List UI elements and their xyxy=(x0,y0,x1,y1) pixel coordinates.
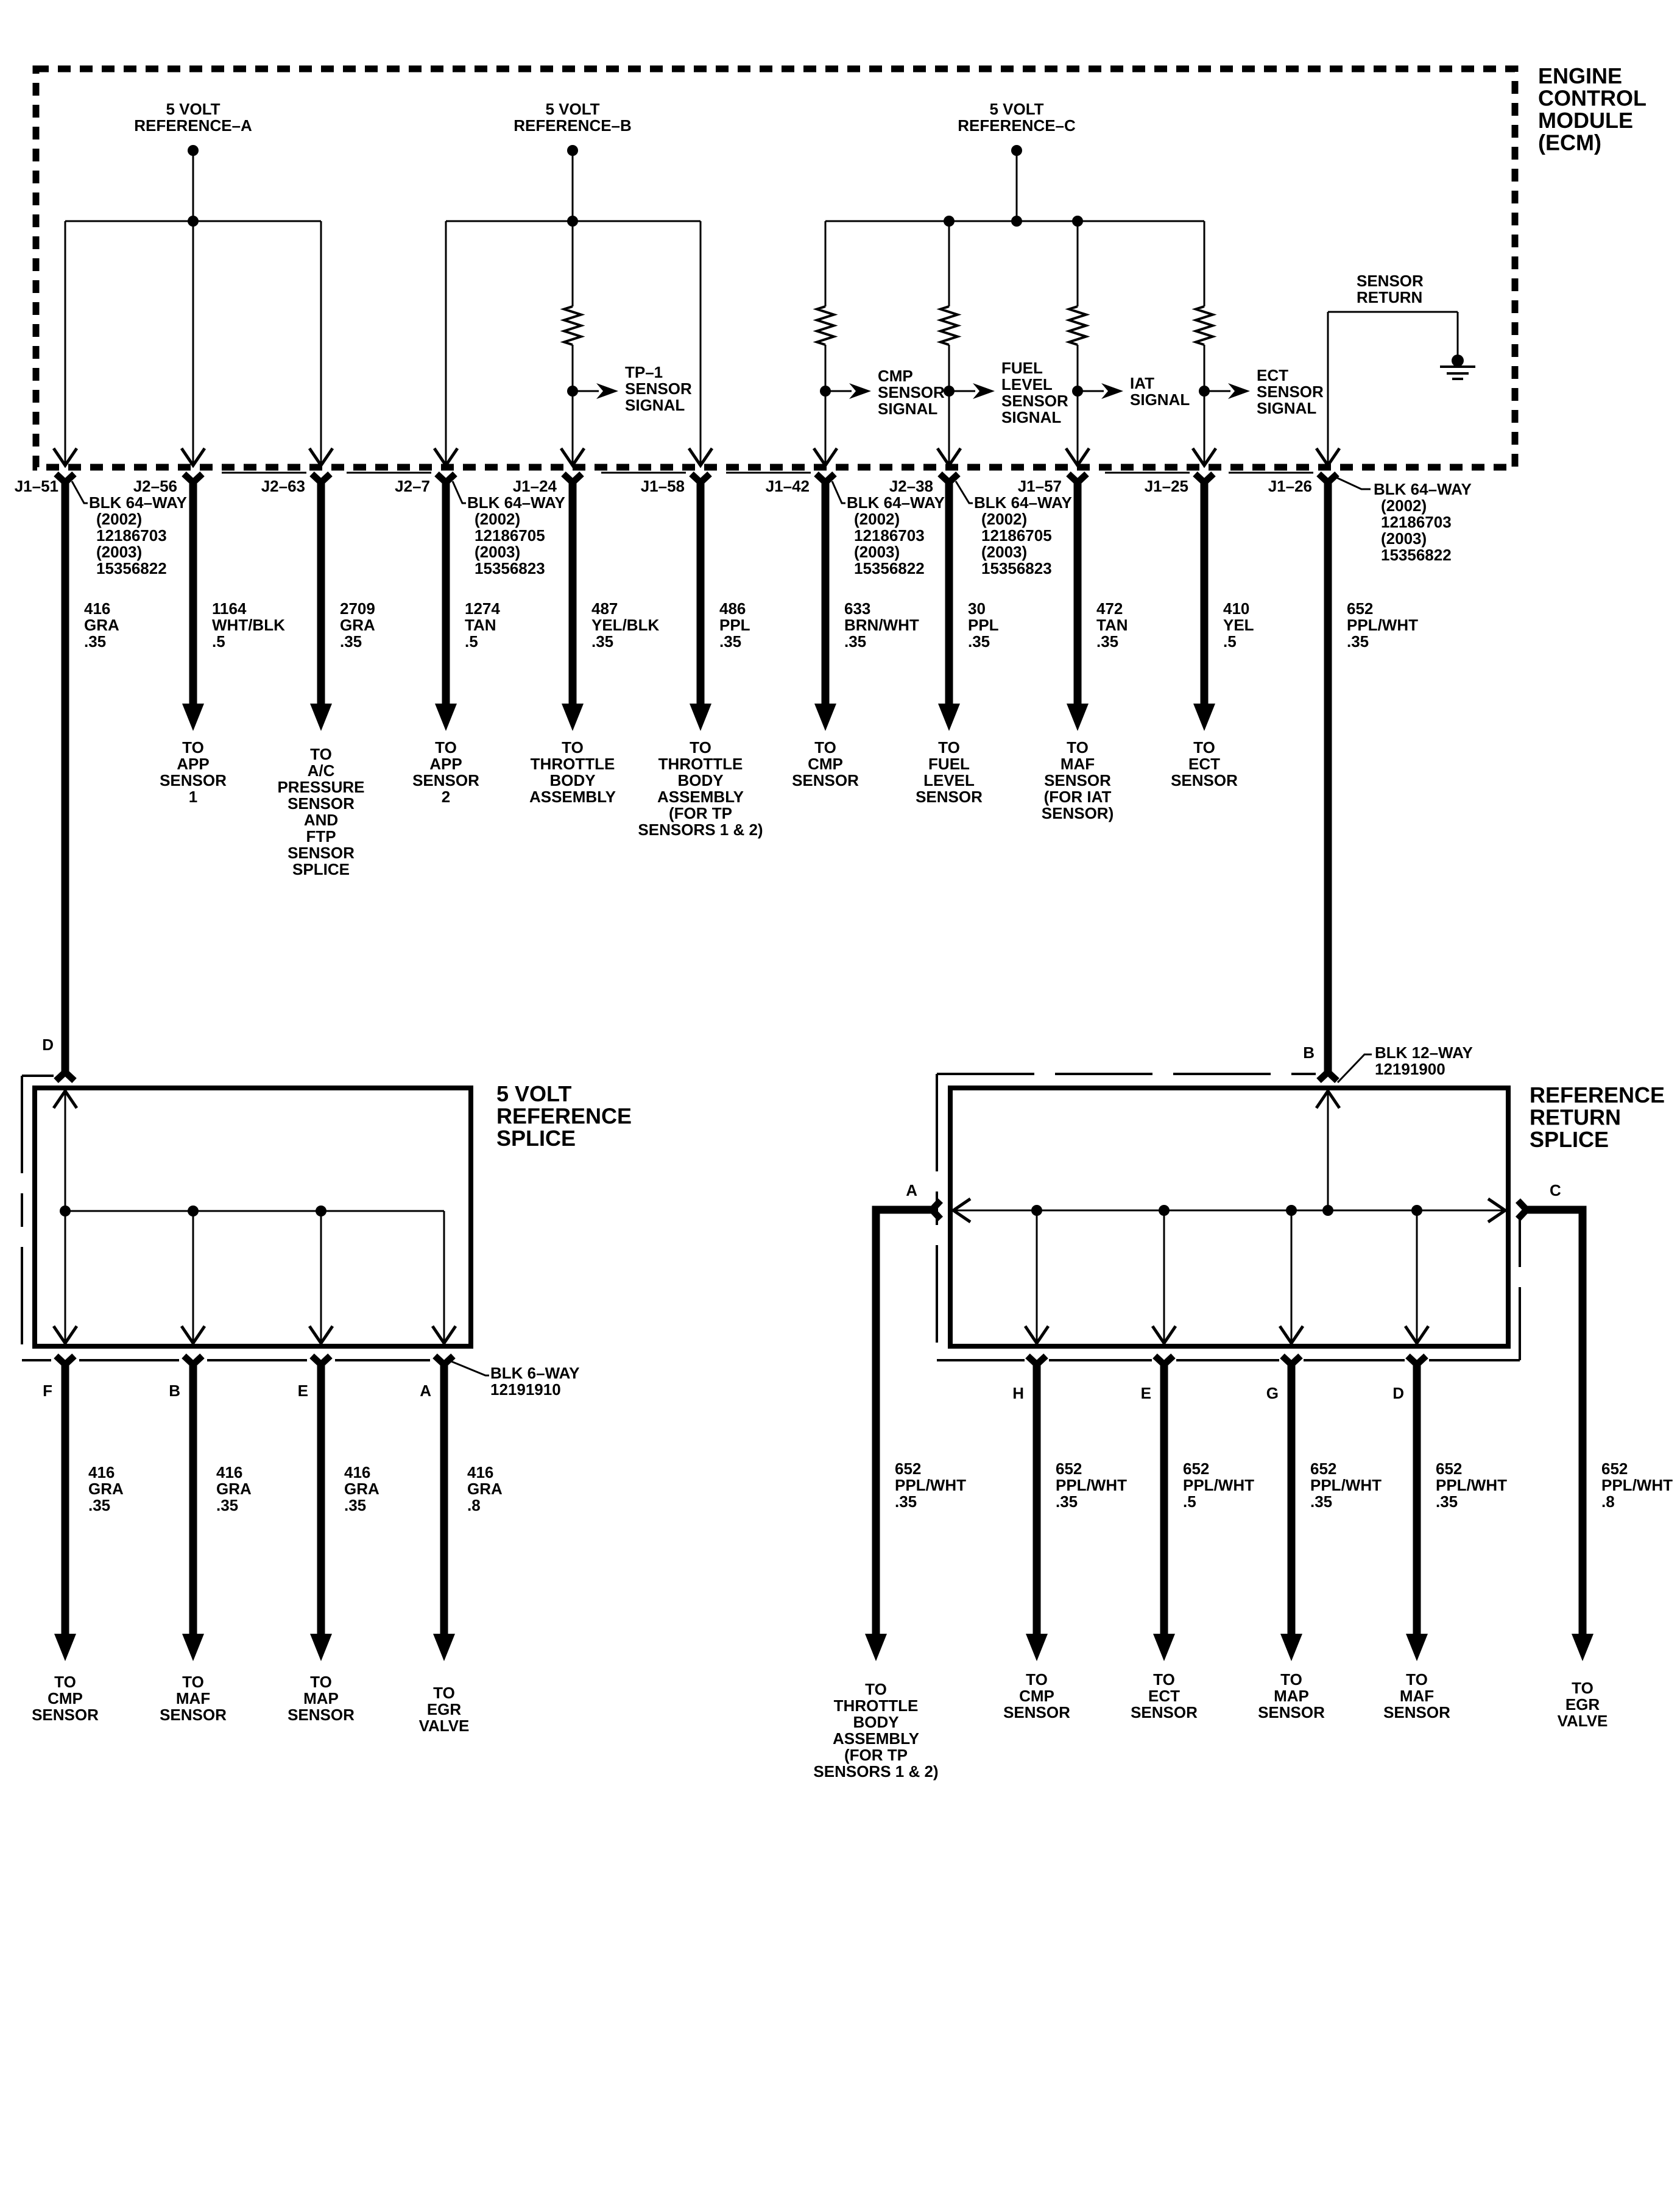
wire splice leg x729 xyxy=(443,1211,445,1344)
wire to ECT xyxy=(1201,487,1209,704)
wire fuel level tap xyxy=(949,390,975,392)
svg-text:.35: .35 xyxy=(591,632,613,651)
arrowhead A wire xyxy=(865,1634,887,1661)
label SENSOR RETURN xyxy=(1357,272,1424,306)
svg-text:SENSORS 1 & 2): SENSORS 1 & 2) xyxy=(813,1762,938,1781)
label TO MAP SENSOR xyxy=(1258,1670,1325,1721)
resistor CMP pull-up xyxy=(817,306,834,345)
svg-text:TO: TO xyxy=(1572,1679,1594,1697)
svg-text:ECT: ECT xyxy=(1257,366,1288,384)
svg-text:EGR: EGR xyxy=(1565,1695,1600,1714)
svg-text:TO: TO xyxy=(310,1673,332,1691)
svg-text:(FOR IAT: (FOR IAT xyxy=(1044,788,1112,806)
wire ECT tap xyxy=(1204,390,1230,392)
svg-text:REFERENCE–A: REFERENCE–A xyxy=(134,116,252,135)
arrowhead to THROTTLE xyxy=(562,704,584,731)
svg-text:MAF: MAF xyxy=(176,1689,210,1707)
svg-text:LEVEL: LEVEL xyxy=(1001,375,1053,394)
label wire 486 PPL xyxy=(719,599,750,651)
svg-text:PPL/WHT: PPL/WHT xyxy=(1183,1476,1254,1494)
label TO CMP SENSOR xyxy=(1003,1670,1070,1721)
svg-text:FUEL: FUEL xyxy=(928,755,970,773)
junction ECT tap xyxy=(1199,386,1210,397)
svg-text:.5: .5 xyxy=(465,632,478,651)
label connector note J1–42 xyxy=(847,493,945,577)
label wire 633 BRN/WHT xyxy=(844,599,919,651)
label TO THROTTLE BODY ASSEMBLY xyxy=(529,738,616,806)
svg-text:SENSOR: SENSOR xyxy=(160,1706,227,1724)
svg-text:15356823: 15356823 xyxy=(981,559,1052,577)
svg-text:(FOR TP: (FOR TP xyxy=(669,804,732,822)
svg-text:652: 652 xyxy=(1056,1460,1082,1478)
svg-text:J1–42: J1–42 xyxy=(766,477,810,495)
svg-text:(2003): (2003) xyxy=(96,543,142,561)
svg-text:RETURN: RETURN xyxy=(1530,1105,1621,1130)
wire 416 GRA to CMP xyxy=(62,1372,69,1634)
svg-text:SENSOR: SENSOR xyxy=(32,1706,99,1724)
label fuel level signal xyxy=(1001,359,1068,426)
svg-text:SENSOR: SENSOR xyxy=(1258,1703,1325,1721)
svg-text:FTP: FTP xyxy=(306,827,336,846)
svg-text:G: G xyxy=(1266,1384,1279,1402)
svg-text:THROTTLE: THROTTLE xyxy=(658,755,743,773)
svg-text:D: D xyxy=(1392,1384,1404,1402)
box 5 VOLT REFERENCE SPLICE xyxy=(35,1088,471,1346)
svg-text:BODY: BODY xyxy=(853,1713,898,1731)
wire return leg E xyxy=(1163,1210,1165,1344)
label connector note J1-26 xyxy=(1374,480,1472,564)
svg-text:(2002): (2002) xyxy=(854,510,900,528)
svg-text:652: 652 xyxy=(1601,1460,1628,1478)
label TO MAF SENSOR xyxy=(1383,1670,1450,1721)
svg-text:EGR: EGR xyxy=(427,1700,462,1718)
svg-text:652: 652 xyxy=(1347,599,1373,618)
svg-text:TO: TO xyxy=(1280,1670,1302,1689)
wire ref-B stem xyxy=(572,150,574,221)
junction return H xyxy=(1031,1205,1042,1216)
wire to THROTTLE xyxy=(697,487,705,704)
connector pin J1–58 xyxy=(691,474,710,493)
leader connector note BLK 12-WAY xyxy=(1338,1054,1372,1082)
label connector note J2–38 xyxy=(974,493,1072,577)
svg-text:15356822: 15356822 xyxy=(854,559,925,577)
label wire 652 .8 xyxy=(1601,1460,1673,1511)
wire ref-A leg J1-51 xyxy=(65,221,66,465)
label TO CMP SENSOR xyxy=(32,1673,99,1724)
svg-text:.35: .35 xyxy=(968,632,990,651)
connector splice-out A xyxy=(435,1356,453,1375)
label TO APP SENSOR 1 xyxy=(160,738,227,806)
svg-text:J2–7: J2–7 xyxy=(395,477,430,495)
svg-text:SENSOR: SENSOR xyxy=(1044,771,1111,789)
junction ref-C at J2-38 xyxy=(944,216,955,227)
label wire 416 .35 xyxy=(88,1463,124,1514)
leader connector note J2–7 xyxy=(453,481,466,503)
svg-text:ASSEMBLY: ASSEMBLY xyxy=(529,788,616,806)
connector splice-out C xyxy=(1518,1201,1537,1219)
wire return leg H xyxy=(1036,1210,1038,1344)
wire ref-A leg J2-63 xyxy=(320,221,322,465)
svg-text:RETURN: RETURN xyxy=(1357,288,1422,306)
label pin J2–38 xyxy=(889,477,933,495)
wire 652 A entry xyxy=(876,1210,923,1634)
wire splice leg x317 xyxy=(192,1211,194,1344)
svg-text:REFERENCE: REFERENCE xyxy=(496,1104,632,1129)
bracket left splice xyxy=(22,1075,54,1077)
label wire 416 .35 xyxy=(216,1463,252,1514)
svg-text:416: 416 xyxy=(344,1463,370,1481)
svg-text:SENSOR: SENSOR xyxy=(792,771,859,789)
wire ref-C leg fuel level upper xyxy=(948,221,950,306)
svg-text:CONTROL: CONTROL xyxy=(1538,86,1646,111)
overline for pin J1–42 xyxy=(726,472,811,474)
wire ref-B leg J1-24 upper xyxy=(572,221,574,306)
svg-text:SIGNAL: SIGNAL xyxy=(625,396,685,414)
svg-text:MAF: MAF xyxy=(1400,1687,1434,1705)
wire ref-A leg J2-56 xyxy=(192,221,194,465)
svg-text:BLK 6–WAY: BLK 6–WAY xyxy=(490,1364,579,1382)
svg-text:5 VOLT: 5 VOLT xyxy=(989,100,1043,118)
overline for pin J1–58 xyxy=(601,472,686,474)
wire ref-B leg J1-58 xyxy=(700,221,702,465)
connector splice-out H xyxy=(1028,1356,1046,1375)
svg-text:SENSOR: SENSOR xyxy=(1131,1703,1198,1721)
svg-text:(FOR TP: (FOR TP xyxy=(844,1746,908,1764)
arrowhead to MAF xyxy=(1067,704,1089,731)
label TO MAF SENSOR xyxy=(160,1673,227,1724)
svg-text:12186705: 12186705 xyxy=(475,526,545,545)
wire to MAF xyxy=(1074,487,1082,704)
svg-text:652: 652 xyxy=(895,1460,921,1478)
resistor TP-1 pull-up xyxy=(564,306,581,345)
svg-text:C: C xyxy=(1550,1181,1561,1199)
label wire 652 .35 xyxy=(895,1460,966,1511)
label TO CMP SENSOR xyxy=(792,738,859,789)
svg-text:.35: .35 xyxy=(216,1496,238,1514)
svg-text:GRA: GRA xyxy=(340,616,375,634)
svg-text:A: A xyxy=(906,1181,917,1199)
wire CMP tap xyxy=(825,390,852,392)
label wire 652 .35 xyxy=(1056,1460,1127,1511)
svg-text:(2003): (2003) xyxy=(981,543,1027,561)
ECM title label xyxy=(1538,63,1646,155)
label TO ECT SENSOR xyxy=(1171,738,1238,789)
svg-text:5 VOLT: 5 VOLT xyxy=(166,100,220,118)
wire splice leg x527 xyxy=(320,1211,322,1344)
connector splice-out F xyxy=(56,1356,74,1375)
svg-text:.5: .5 xyxy=(212,632,225,651)
arrowhead to APP xyxy=(182,704,204,731)
junction TP-1 tap xyxy=(567,386,578,397)
svg-text:SENSOR: SENSOR xyxy=(1171,771,1238,789)
label splice pin E xyxy=(298,1382,308,1400)
junction IAT tap xyxy=(1072,386,1083,397)
wire splice-in D xyxy=(65,1090,66,1344)
label pin J1–25 xyxy=(1145,477,1188,495)
leader BLK 6-WAY note xyxy=(451,1361,489,1375)
label wire 652 .35 xyxy=(1310,1460,1382,1511)
svg-text:15356822: 15356822 xyxy=(96,559,167,577)
svg-text:TO: TO xyxy=(1193,738,1215,757)
wire 652 PPL/WHT to MAP xyxy=(1288,1372,1296,1634)
svg-text:416: 416 xyxy=(467,1463,493,1481)
svg-text:ECT: ECT xyxy=(1188,755,1220,773)
node 5 VOLT REFERENCE-B label xyxy=(514,100,632,135)
arrowhead to EGR xyxy=(433,1634,455,1661)
svg-text:(2002): (2002) xyxy=(96,510,142,528)
svg-text:1: 1 xyxy=(189,788,197,806)
connector splice D xyxy=(56,1061,74,1081)
label TO FUEL LEVEL SENSOR xyxy=(916,738,983,806)
overline for pin J1–26 xyxy=(1229,472,1313,474)
svg-text:416: 416 xyxy=(216,1463,242,1481)
wire sensor return to ground xyxy=(1457,312,1459,356)
svg-text:YEL/BLK: YEL/BLK xyxy=(591,616,659,634)
svg-text:.35: .35 xyxy=(88,1496,110,1514)
svg-text:12191910: 12191910 xyxy=(490,1380,561,1399)
connector splice-out G xyxy=(1282,1356,1301,1375)
svg-text:12186703: 12186703 xyxy=(854,526,925,545)
wire ref-C leg ECT lower xyxy=(1204,345,1205,465)
box REFERENCE RETURN SPLICE xyxy=(950,1088,1508,1346)
svg-text:PPL: PPL xyxy=(719,616,750,634)
svg-text:5 VOLT: 5 VOLT xyxy=(496,1081,571,1106)
svg-text:12186705: 12186705 xyxy=(981,526,1052,545)
arrowhead C wire xyxy=(1572,1634,1594,1661)
connector splice-out E xyxy=(312,1356,330,1375)
wire ref-B leg J1-24 lower xyxy=(572,345,574,465)
label pin J1–57 xyxy=(1018,477,1062,495)
label BLK 6-WAY 12191910 xyxy=(490,1364,579,1399)
wire splice bus xyxy=(65,1210,444,1212)
junction return E xyxy=(1159,1205,1170,1216)
svg-text:.8: .8 xyxy=(467,1496,481,1514)
svg-text:J1–57: J1–57 xyxy=(1018,477,1062,495)
svg-text:BLK 64–WAY: BLK 64–WAY xyxy=(847,493,945,512)
svg-text:SENSOR: SENSOR xyxy=(412,771,479,789)
svg-text:PRESSURE: PRESSURE xyxy=(277,778,364,796)
bracket right splice xyxy=(937,1073,1316,1075)
label TO ECT SENSOR xyxy=(1131,1670,1198,1721)
label pin J1–26 xyxy=(1268,477,1312,495)
svg-text:CMP: CMP xyxy=(1019,1687,1054,1705)
svg-text:PPL/WHT: PPL/WHT xyxy=(1056,1476,1127,1494)
arrow TP-1 signal xyxy=(596,383,618,399)
svg-text:(2002): (2002) xyxy=(1381,496,1427,515)
svg-text:SPLICE: SPLICE xyxy=(496,1126,576,1151)
svg-text:E: E xyxy=(298,1382,308,1400)
svg-text:SENSOR: SENSOR xyxy=(288,844,355,862)
leader connector note J1-26 xyxy=(1336,478,1371,489)
svg-text:TO: TO xyxy=(1153,1670,1175,1689)
svg-text:12186703: 12186703 xyxy=(96,526,167,545)
label splice pin B xyxy=(169,1382,180,1400)
label wire 1164 WHT/BLK xyxy=(212,599,285,651)
svg-text:PPL/WHT: PPL/WHT xyxy=(1436,1476,1507,1494)
svg-text:TO: TO xyxy=(182,1673,204,1691)
svg-text:.35: .35 xyxy=(340,632,362,651)
svg-text:J2–56: J2–56 xyxy=(133,477,177,495)
wire to A/C xyxy=(317,487,325,704)
wire to THROTTLE xyxy=(569,487,577,704)
label TO MAP SENSOR xyxy=(288,1673,355,1724)
label TO MAF SENSOR (FOR IAT SENSOR) xyxy=(1042,738,1114,822)
label TO THROTTLE BODY ASSEMBLY (FOR TP SENSORS 1 & 2) xyxy=(638,738,763,839)
connector splice-out B xyxy=(184,1356,202,1375)
svg-text:SIGNAL: SIGNAL xyxy=(1257,399,1316,417)
arrowhead to FUEL xyxy=(938,704,960,731)
label pin J1–58 xyxy=(641,477,685,495)
junction fuel level tap xyxy=(944,386,955,397)
svg-text:472: 472 xyxy=(1096,599,1123,618)
svg-text:REFERENCE–B: REFERENCE–B xyxy=(514,116,632,135)
wire ref-C leg fuel level lower xyxy=(948,345,950,465)
svg-text:GRA: GRA xyxy=(88,1480,124,1498)
wire TP-1 tap xyxy=(573,390,599,392)
arrowhead to CMP xyxy=(54,1634,76,1661)
svg-text:E: E xyxy=(1141,1384,1151,1402)
wire 652 PPL/WHT to ECT xyxy=(1160,1372,1168,1634)
svg-text:TO: TO xyxy=(1406,1670,1428,1689)
svg-text:GRA: GRA xyxy=(216,1480,252,1498)
wire to APP xyxy=(442,487,450,704)
svg-text:.35: .35 xyxy=(1347,632,1369,651)
arrow ECT signal xyxy=(1228,383,1250,399)
svg-text:.35: .35 xyxy=(1310,1492,1332,1511)
svg-text:TO: TO xyxy=(690,738,711,757)
svg-text:WHT/BLK: WHT/BLK xyxy=(212,616,285,634)
leader connector note J2–38 xyxy=(956,481,973,503)
label wire 2709 GRA xyxy=(340,599,375,651)
svg-text:.35: .35 xyxy=(719,632,741,651)
svg-text:SENSOR: SENSOR xyxy=(1383,1703,1450,1721)
svg-text:BRN/WHT: BRN/WHT xyxy=(844,616,919,634)
label pin J1–42 xyxy=(766,477,810,495)
label splice pin A xyxy=(906,1181,917,1199)
resistor IAT pull-up xyxy=(1069,306,1086,345)
junction splice E xyxy=(316,1206,326,1216)
svg-text:TO: TO xyxy=(310,745,332,763)
svg-text:ECT: ECT xyxy=(1148,1687,1180,1705)
svg-text:SPLICE: SPLICE xyxy=(1530,1127,1609,1152)
svg-text:.35: .35 xyxy=(1056,1492,1078,1511)
label wire 472 TAN xyxy=(1096,599,1128,651)
label pin J1–24 xyxy=(513,477,557,495)
label connector note J2–7 xyxy=(467,493,565,577)
svg-text:A: A xyxy=(420,1382,431,1400)
svg-text:BODY: BODY xyxy=(677,771,723,789)
wire ref-C leg IAT lower xyxy=(1077,345,1079,465)
svg-text:(2003): (2003) xyxy=(475,543,520,561)
svg-text:TO: TO xyxy=(1026,1670,1048,1689)
svg-text:PPL/WHT: PPL/WHT xyxy=(895,1476,966,1494)
connector splice-in A xyxy=(921,1201,941,1219)
wire ref-B bus xyxy=(446,221,701,222)
wire to FUEL xyxy=(945,487,953,704)
svg-text:ENGINE: ENGINE xyxy=(1538,63,1622,88)
label IAT signal xyxy=(1130,374,1190,409)
svg-text:(2002): (2002) xyxy=(475,510,520,528)
svg-text:633: 633 xyxy=(844,599,870,618)
label splice pin C xyxy=(1550,1181,1561,1199)
wire return bus xyxy=(954,1210,1505,1212)
connector pin J1–57 xyxy=(1068,474,1087,493)
arrowhead to CMP xyxy=(1026,1634,1048,1661)
svg-text:(2003): (2003) xyxy=(1381,529,1427,548)
svg-text:TO: TO xyxy=(814,738,836,757)
svg-text:15356822: 15356822 xyxy=(1381,546,1452,564)
wire IAT tap xyxy=(1078,390,1104,392)
svg-text:SENSORS 1 & 2): SENSORS 1 & 2) xyxy=(638,821,763,839)
connector pin J2–63 xyxy=(312,474,330,493)
svg-text:2: 2 xyxy=(442,788,450,806)
resistor fuel level pull-up xyxy=(941,306,958,345)
svg-text:TO: TO xyxy=(562,738,584,757)
arrowhead to A/C xyxy=(310,704,332,731)
label 5 VOLT REFERENCE SPLICE xyxy=(496,1081,632,1151)
svg-text:SIGNAL: SIGNAL xyxy=(1130,390,1190,409)
svg-text:FUEL: FUEL xyxy=(1001,359,1043,377)
arrowhead to MAP xyxy=(1280,1634,1302,1661)
wire to CMP xyxy=(822,487,830,704)
svg-text:THROTTLE: THROTTLE xyxy=(531,755,615,773)
label splice pin A xyxy=(420,1382,431,1400)
label pin J1–51 xyxy=(15,477,58,495)
label wire 416 .8 xyxy=(467,1463,503,1514)
arrow fuel level signal xyxy=(973,383,995,399)
junction CMP tap xyxy=(820,386,831,397)
svg-text:487: 487 xyxy=(591,599,618,618)
junction ref-C center xyxy=(1011,216,1022,227)
connector pin J1–25 xyxy=(1195,474,1213,493)
arrowhead to MAF xyxy=(1406,1634,1428,1661)
wire 652 C exit xyxy=(1535,1210,1583,1634)
svg-text:CMP: CMP xyxy=(48,1689,83,1707)
svg-text:GRA: GRA xyxy=(344,1480,379,1498)
svg-text:SENSOR: SENSOR xyxy=(160,771,227,789)
svg-text:SENSOR: SENSOR xyxy=(878,383,945,401)
label splice pin H xyxy=(1012,1384,1024,1402)
svg-text:SPLICE: SPLICE xyxy=(292,860,350,878)
svg-text:BLK 64–WAY: BLK 64–WAY xyxy=(1374,480,1472,498)
connector splice-out D xyxy=(1408,1356,1426,1375)
svg-text:(2003): (2003) xyxy=(854,543,900,561)
connector pin J1–51 xyxy=(56,474,74,493)
node C supply dot xyxy=(1011,145,1022,156)
arrow IAT signal xyxy=(1101,383,1123,399)
label wire 652 .35 xyxy=(1436,1460,1507,1511)
connector pin J2–7 xyxy=(437,474,455,493)
node 5 VOLT REFERENCE-A label xyxy=(134,100,252,135)
svg-text:TAN: TAN xyxy=(1096,616,1128,634)
svg-text:652: 652 xyxy=(1310,1460,1336,1478)
arrowhead to ECT xyxy=(1153,1634,1175,1661)
svg-text:J1–26: J1–26 xyxy=(1268,477,1312,495)
svg-text:12191900: 12191900 xyxy=(1375,1060,1445,1078)
label splice pin E xyxy=(1141,1384,1151,1402)
svg-text:SIGNAL: SIGNAL xyxy=(878,400,937,418)
svg-text:J1–51: J1–51 xyxy=(15,477,58,495)
label splice pin D xyxy=(1392,1384,1404,1402)
svg-text:.35: .35 xyxy=(1436,1492,1458,1511)
label pin J2–7 xyxy=(395,477,430,495)
svg-text:.35: .35 xyxy=(84,632,106,651)
svg-text:15356823: 15356823 xyxy=(475,559,545,577)
wire ref-C bus xyxy=(825,221,1204,222)
junction ref-C at J1-57 xyxy=(1072,216,1083,227)
label D xyxy=(42,1036,54,1054)
svg-text:1274: 1274 xyxy=(465,599,500,618)
